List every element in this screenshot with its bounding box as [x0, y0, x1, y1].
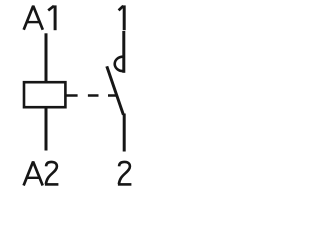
wire A2 (coil bottom lead)	[45, 107, 48, 150]
wire 1 (fixed contact lead)	[122, 31, 125, 73]
mechanical link (dashed actuator line)	[65, 94, 116, 97]
wire 2 (moving contact lead)	[123, 114, 126, 152]
coil K1 (contactor coil rectangle)	[24, 82, 65, 107]
contact blade (moving contact, NO)	[107, 66, 124, 115]
wire A1 (coil top lead)	[45, 33, 48, 82]
contactor function arc (fixed contact semicircle)	[115, 57, 123, 71]
terminal label 2	[118, 162, 131, 185]
terminal label 1	[119, 5, 125, 30]
terminal label A1	[24, 5, 55, 30]
terminal label A2	[24, 162, 43, 186]
